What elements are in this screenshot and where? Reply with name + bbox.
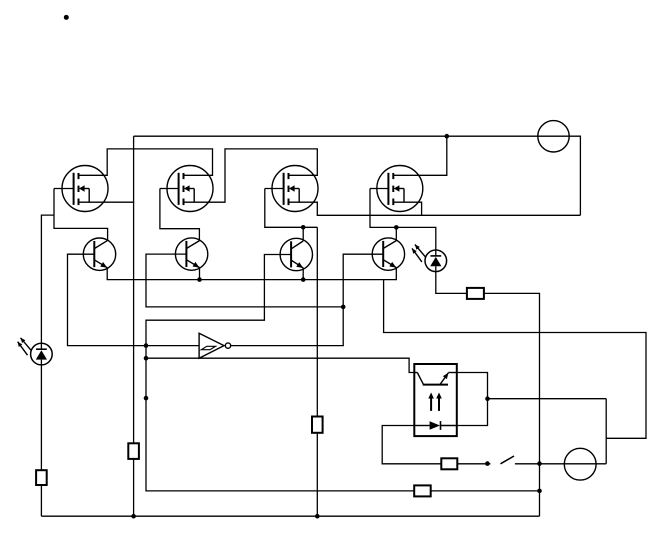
wire M2 gate to Q2 collector	[160, 189, 200, 241]
wire M3 source to right rail	[289, 202, 581, 215]
wire opto emitter to right	[488, 398, 607, 400]
wire R3 branch upper	[316, 227, 318, 416]
wire left long vertical lower	[133, 459, 135, 516]
node junction right vertical / R6	[537, 489, 542, 494]
wire D1 anode-top to M1 gate net	[41, 215, 54, 349]
wire opto anode to switch	[382, 426, 441, 464]
transistor Q4	[372, 238, 404, 270]
wire M3 gate lead	[265, 188, 284, 190]
wire opto collector feed	[146, 358, 414, 372]
transistor M4	[377, 166, 423, 212]
wire emitter bus to far right loop	[384, 280, 646, 439]
transistor M1	[62, 166, 108, 212]
wire M3 gate to R3 branch	[265, 189, 318, 228]
wire bottom rail	[41, 515, 539, 517]
wire Q3 collector	[302, 227, 304, 241]
wire Q4 base to inverter output	[231, 254, 383, 345]
wire R3 branch lower	[316, 433, 318, 516]
switch SW1	[485, 461, 490, 466]
resistor R5	[441, 458, 457, 469]
wire M1 source	[79, 201, 134, 203]
resistor R4	[467, 288, 484, 299]
wire M1 gate to Q1 collector	[54, 189, 108, 241]
wire R5 to switch contact	[457, 463, 490, 465]
wire M1 gate lead	[54, 188, 74, 190]
wire Q4 collector	[395, 227, 397, 241]
wire opto emitter to LED cathode	[457, 373, 488, 426]
resistor R1	[36, 470, 47, 485]
wire Q2 emitter	[199, 267, 201, 280]
node junction Q3 collector	[301, 225, 306, 230]
node junction inverter input	[144, 343, 149, 348]
optocoupler U2	[414, 364, 457, 436]
wire D2 bottom to R4	[436, 266, 467, 293]
wire switch to terminal T2	[515, 463, 606, 465]
LED D1	[31, 343, 53, 365]
transistor Q2	[175, 238, 207, 270]
wire Q1 base to inverter input	[68, 254, 200, 345]
node junction left net	[144, 396, 149, 401]
resistor R6	[414, 485, 431, 496]
resistor R2	[128, 443, 139, 459]
node junction right vertical / switch row	[537, 461, 542, 466]
wire M4 gate to D2 top	[370, 189, 436, 256]
node junction Q4 collector	[394, 225, 399, 230]
resistor R3	[312, 417, 323, 433]
node junction opto emitter	[485, 396, 490, 401]
transistor M2	[167, 166, 213, 212]
wire M4 source	[393, 202, 421, 215]
node stray dot	[64, 15, 69, 20]
inverter U1	[199, 333, 224, 358]
node junction opto feed	[144, 356, 149, 361]
wire R6 to right vertical	[431, 490, 540, 492]
wire M2 gate lead	[160, 188, 179, 190]
wire M4 drain to top rail	[393, 136, 447, 175]
terminal T2	[564, 448, 596, 480]
transistor Q1	[83, 238, 115, 270]
node junction bottom rail / R3	[315, 514, 320, 519]
wire Q3 base down-left	[146, 255, 414, 491]
terminal T1	[538, 121, 569, 152]
wire M2 source to M3 drain	[184, 149, 318, 202]
wire left long vertical upper	[133, 136, 135, 443]
wire R1 to bottom rail	[40, 485, 42, 516]
wire M1 drain to M2 drain	[79, 149, 213, 175]
wire D1 bottom to R1	[40, 360, 42, 471]
node junction bottom rail / R2	[131, 514, 136, 519]
wire top rail to right side	[134, 136, 581, 215]
transistor Q3	[280, 238, 312, 270]
node junction bus / Q3 emitter	[301, 277, 306, 282]
wire Q2 base to Q4 base net	[146, 254, 343, 307]
wire R4 to right vertical	[484, 293, 540, 516]
node junction Q4 base / Q2 base	[341, 305, 346, 310]
LED D2	[425, 250, 447, 272]
node junction top rail / M4 drain	[445, 134, 450, 139]
node junction bus / Q2 emitter	[197, 277, 202, 282]
wire M4 gate lead	[370, 188, 388, 190]
transistor M3	[272, 166, 318, 212]
wire Q3 emitter	[302, 268, 304, 280]
wire emitter bus	[107, 268, 396, 280]
wire right mid vertical	[605, 399, 607, 464]
